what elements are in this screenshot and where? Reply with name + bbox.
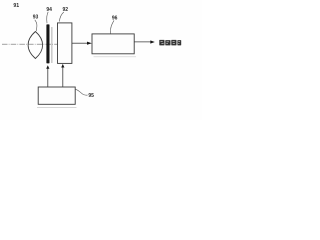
wire shadow under box 95	[37, 107, 77, 109]
wire leader 94	[47, 12, 49, 23]
wire control 95 to 92 with up arrow	[62, 67, 64, 87]
wire leader 92	[59, 12, 63, 22]
svg-text:91: 91	[13, 3, 19, 9]
wire leader 95	[75, 89, 87, 95]
wire control 95 to 94 with up arrow	[47, 68, 49, 87]
op-amp box 95 (driver box)	[38, 87, 75, 104]
capacitor rect 92 (image sensor, tall rectangle)	[58, 23, 72, 64]
svg-text:96: 96	[112, 16, 118, 22]
wire shadow under box 96	[94, 56, 137, 58]
lens 93	[28, 32, 42, 59]
wire output arrow from 96	[134, 41, 151, 43]
wire optical axis (dash-dot)	[2, 43, 57, 45]
svg-text:93: 93	[33, 15, 39, 21]
wire leader 96	[110, 20, 114, 33]
transistor bar 94 (shutter plate, solid black)	[46, 24, 49, 63]
wire thin plate line right of 94	[51, 27, 53, 63]
svg-text:95: 95	[88, 93, 94, 99]
wire leader 93	[35, 20, 37, 31]
svg-text:94: 94	[46, 7, 52, 13]
node output text (video signal glyphs)	[159, 40, 181, 46]
op-amp box 96 (signal processor)	[92, 34, 134, 54]
wire signal 92 to 96 with arrow	[72, 42, 87, 44]
